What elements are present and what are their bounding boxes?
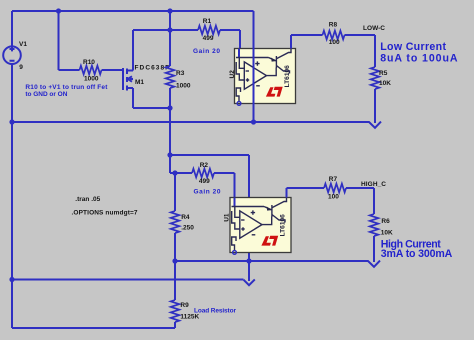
svg-text:R10: R10 xyxy=(83,59,95,66)
svg-text:LOW-C: LOW-C xyxy=(363,25,385,32)
wire U2 output up xyxy=(290,35,292,49)
resistor R10 xyxy=(80,66,102,75)
svg-text:R4: R4 xyxy=(181,214,190,221)
wire U2 output to R8 xyxy=(291,34,323,36)
resistor R5 xyxy=(371,67,380,89)
svg-text:R5: R5 xyxy=(379,70,388,77)
ground flag low-current xyxy=(369,122,381,128)
svg-text:9: 9 xyxy=(19,64,23,71)
wire R10 left lead xyxy=(59,69,80,71)
svg-text:R10 to +V1 to trun off Fet: R10 to +V1 to trun off Fet xyxy=(25,84,108,91)
wire R4 bottom xyxy=(174,233,176,300)
node top-rail junction at R3 branch xyxy=(167,8,172,13)
wire V+ drop through U1 xyxy=(248,155,250,281)
resistor R4 xyxy=(171,211,180,233)
node M1 drain junction xyxy=(167,105,172,110)
wire R2 right lead xyxy=(214,172,235,174)
wire R1 down to U2 input xyxy=(239,30,241,49)
transistor M1 PMOS xyxy=(123,68,133,91)
op-amp U1 LT6106 xyxy=(230,198,291,255)
wire V1 bottom to bottom rail xyxy=(11,64,13,328)
svg-text:R2: R2 xyxy=(200,162,209,169)
svg-text:1125K: 1125K xyxy=(180,314,199,321)
wire R9 bottom xyxy=(174,322,176,328)
wire M1 source jog to R3 column xyxy=(133,29,170,31)
svg-text:Gain 20: Gain 20 xyxy=(193,48,220,55)
wire R7 right to corner xyxy=(346,187,374,189)
svg-text:Low Current: Low Current xyxy=(380,41,446,53)
wire R6 bottom to ground xyxy=(373,236,375,262)
resistor R2 xyxy=(192,169,214,178)
wire down to R5 xyxy=(374,35,376,67)
svg-text:1000: 1000 xyxy=(176,82,191,89)
node R4/R9 junction xyxy=(172,258,177,263)
wire down to R6 xyxy=(373,188,375,214)
wire M1 drain to R3 bottom xyxy=(133,107,170,109)
resistor R1 xyxy=(198,26,220,35)
node rail start at V1 column lower xyxy=(9,277,14,282)
op-amp U2 LT6106 xyxy=(235,49,296,106)
resistor R3 xyxy=(166,66,175,88)
resistor R6 xyxy=(370,214,379,236)
svg-text:.OPTIONS numdgt=7: .OPTIONS numdgt=7 xyxy=(72,209,138,216)
node rail start at V1 column xyxy=(9,119,14,124)
wire M1 source up xyxy=(132,30,134,71)
wire V+ drop through U2 xyxy=(253,11,255,122)
svg-text:3mA to 300mA: 3mA to 300mA xyxy=(381,248,453,260)
resistor R8 xyxy=(323,31,345,40)
svg-text:.250: .250 xyxy=(181,225,194,232)
svg-text:1000: 1000 xyxy=(84,76,99,83)
svg-text:M1: M1 xyxy=(135,79,144,86)
ground flag mid xyxy=(244,279,255,285)
svg-text:R9: R9 xyxy=(180,302,189,309)
wire U1 output up xyxy=(286,188,288,198)
svg-text:100: 100 xyxy=(329,39,340,46)
resistor R9 xyxy=(171,300,180,322)
svg-text:R3: R3 xyxy=(176,70,185,77)
svg-text:R7: R7 xyxy=(329,176,338,183)
svg-text:8uA to 100uA: 8uA to 100uA xyxy=(380,52,458,64)
svg-text:R1: R1 xyxy=(203,18,212,25)
wire gate lead xyxy=(102,69,123,71)
svg-text:V1: V1 xyxy=(19,41,27,48)
svg-text:.tran .05: .tran .05 xyxy=(75,196,100,203)
svg-text:10K: 10K xyxy=(381,230,393,237)
node R4 column tap xyxy=(172,170,177,175)
wire R1 right lead xyxy=(220,29,240,31)
voltage source V1 xyxy=(3,46,21,64)
wire ground rail high-current xyxy=(175,260,369,262)
wire R8 right to corner xyxy=(345,34,376,36)
node U2 V+ to rail xyxy=(251,119,256,124)
wire R5 bottom to ground xyxy=(374,89,376,123)
wire V+ branch to U1 xyxy=(170,154,249,156)
svg-text:R6: R6 xyxy=(381,218,390,225)
svg-text:Load Resistor: Load Resistor xyxy=(194,308,236,315)
wire R3 bottom to lower section xyxy=(169,88,171,173)
svg-text:100: 100 xyxy=(328,194,339,201)
svg-text:to GND or ON: to GND or ON xyxy=(25,91,67,98)
svg-text:Gain 20: Gain 20 xyxy=(194,188,221,195)
wire R10 branch vertical xyxy=(58,11,60,70)
ground flag high-current xyxy=(368,261,380,267)
node top-rail junction at R10 branch xyxy=(56,8,61,13)
svg-text:499: 499 xyxy=(203,35,214,42)
svg-text:U2: U2 xyxy=(229,70,236,79)
wire V1 top stub xyxy=(11,11,13,47)
svg-text:R8: R8 xyxy=(329,21,338,28)
wire U1 output to R7 xyxy=(287,187,325,189)
svg-text:U1: U1 xyxy=(224,213,231,222)
wire R2 down to U1 input xyxy=(234,173,236,198)
wire R1 left lead xyxy=(170,29,198,31)
wire R4 column xyxy=(174,173,176,211)
node V+ branch to U1 xyxy=(167,152,172,157)
svg-text:10K: 10K xyxy=(379,80,391,87)
wire bottom rail xyxy=(12,327,175,329)
wire R3 column top xyxy=(169,11,171,66)
svg-text:HIGH_C: HIGH_C xyxy=(361,181,386,188)
svg-text:499: 499 xyxy=(199,178,210,185)
node U1 V+ to rail xyxy=(246,258,251,263)
wire ground rail low-current xyxy=(12,121,370,123)
wire top V+ rail xyxy=(12,10,254,12)
resistor R7 xyxy=(324,184,346,193)
wire M1 drain down xyxy=(132,88,134,108)
wire R2 row left xyxy=(170,172,192,174)
node R1/M1 tap xyxy=(167,27,172,32)
wire ground rail mid xyxy=(12,279,244,281)
